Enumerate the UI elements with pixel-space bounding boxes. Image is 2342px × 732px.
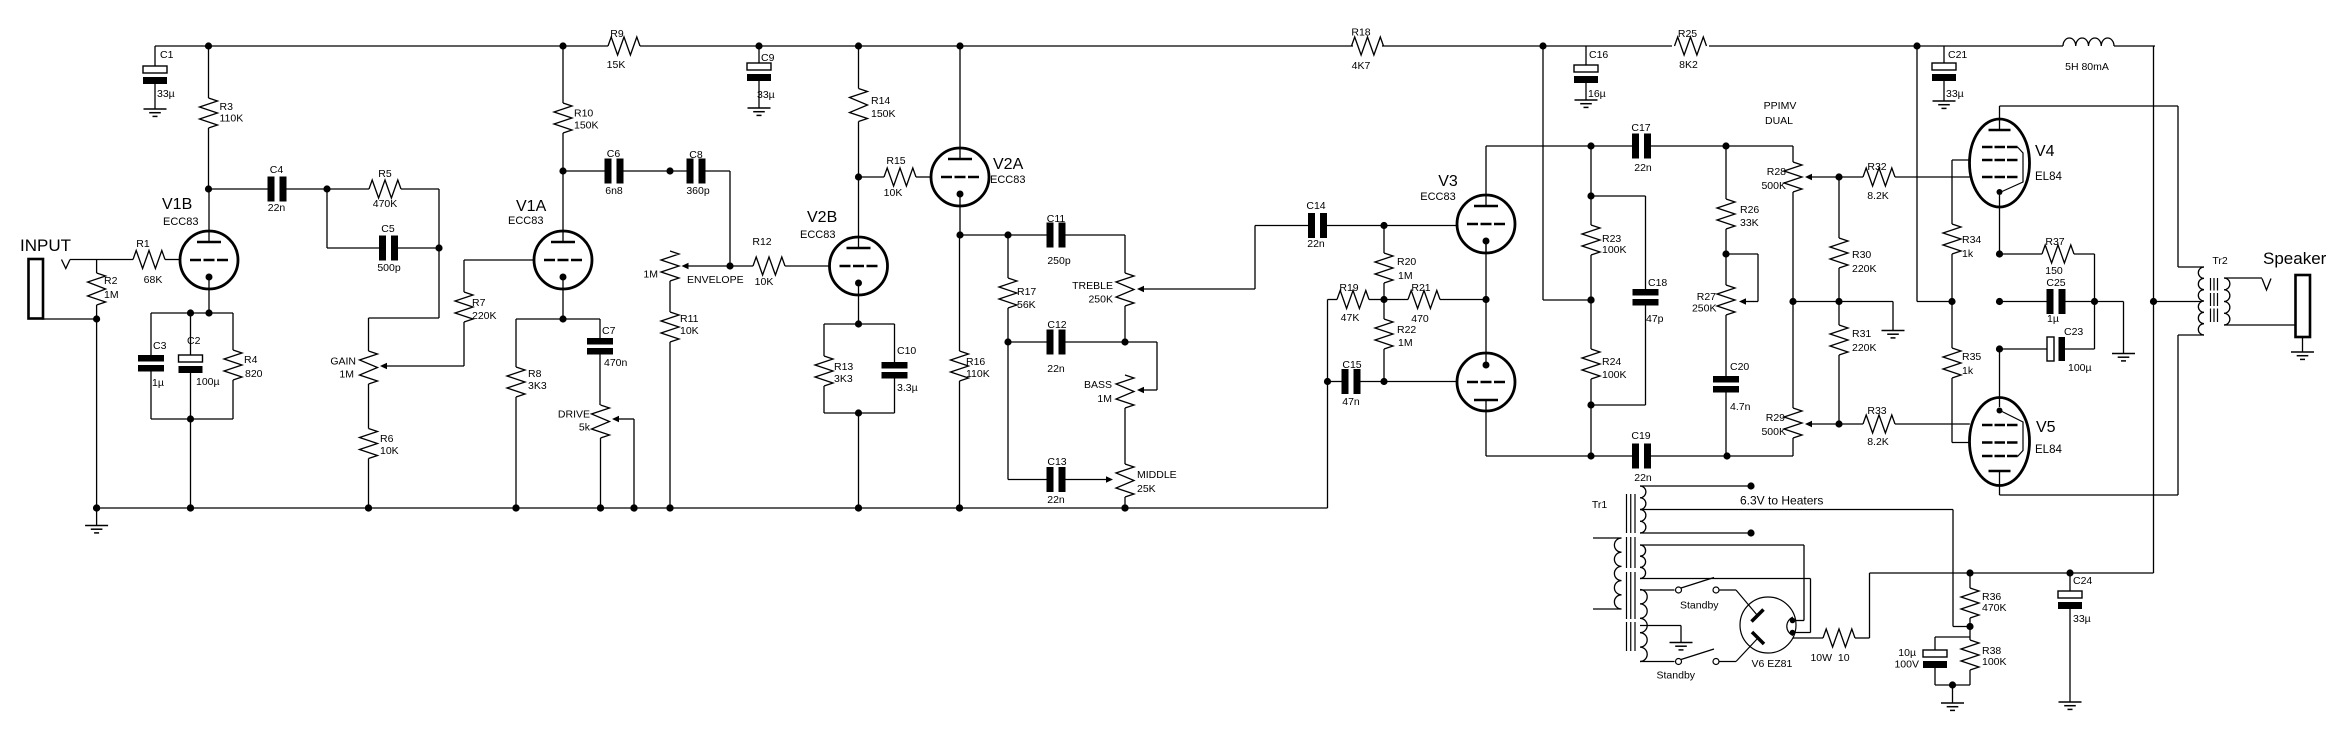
svg-text:V6 EZ81: V6 EZ81 <box>1752 658 1793 670</box>
svg-text:100µ: 100µ <box>196 376 220 388</box>
svg-text:R22: R22 <box>1397 324 1416 336</box>
svg-text:C11: C11 <box>1047 213 1066 225</box>
svg-text:250p: 250p <box>1047 255 1071 267</box>
svg-text:R8: R8 <box>528 368 542 380</box>
svg-text:470K: 470K <box>373 198 398 210</box>
svg-text:R24: R24 <box>1602 356 1621 368</box>
svg-text:100K: 100K <box>1982 656 2007 668</box>
svg-text:BASS: BASS <box>1084 379 1112 391</box>
svg-text:10µ: 10µ <box>1898 647 1916 659</box>
svg-text:1M: 1M <box>1097 393 1112 405</box>
svg-text:V5: V5 <box>2036 419 2056 436</box>
svg-text:ECC83: ECC83 <box>1420 191 1455 203</box>
svg-text:R7: R7 <box>472 297 486 309</box>
svg-text:R28: R28 <box>1767 166 1786 178</box>
svg-text:1k: 1k <box>1962 365 1974 377</box>
svg-text:EL84: EL84 <box>2035 171 2062 183</box>
svg-text:1M: 1M <box>339 369 354 381</box>
svg-text:100K: 100K <box>1602 244 1627 256</box>
svg-text:R14: R14 <box>871 95 890 107</box>
svg-text:150: 150 <box>2045 265 2063 277</box>
svg-text:1M: 1M <box>643 269 658 281</box>
svg-text:1k: 1k <box>1962 248 1974 260</box>
svg-text:R19: R19 <box>1339 282 1358 294</box>
svg-text:R3: R3 <box>220 101 234 113</box>
svg-text:R6: R6 <box>380 433 394 445</box>
svg-text:22n: 22n <box>268 202 286 214</box>
svg-text:47K: 47K <box>1341 312 1360 324</box>
svg-text:Tr2: Tr2 <box>2212 255 2228 267</box>
svg-text:INPUT: INPUT <box>20 236 71 255</box>
svg-text:C18: C18 <box>1648 277 1667 289</box>
svg-text:R20: R20 <box>1397 256 1416 268</box>
svg-text:R18: R18 <box>1351 27 1370 39</box>
svg-text:100µ: 100µ <box>2068 362 2092 374</box>
svg-text:1µ: 1µ <box>2047 313 2059 325</box>
svg-text:R26: R26 <box>1740 204 1759 216</box>
svg-text:C21: C21 <box>1948 49 1967 61</box>
svg-text:56K: 56K <box>1017 299 1036 311</box>
svg-text:DRIVE: DRIVE <box>558 409 590 421</box>
svg-text:500K: 500K <box>1761 426 1786 438</box>
svg-text:R15: R15 <box>886 155 905 167</box>
svg-text:C17: C17 <box>1631 122 1650 134</box>
svg-text:250K: 250K <box>1692 303 1717 315</box>
svg-text:R21: R21 <box>1411 282 1430 294</box>
svg-text:47n: 47n <box>1342 396 1360 408</box>
svg-text:R4: R4 <box>244 354 258 366</box>
svg-text:V4: V4 <box>2035 143 2055 160</box>
svg-text:6n8: 6n8 <box>605 185 623 197</box>
svg-text:820: 820 <box>245 368 263 380</box>
svg-text:R32: R32 <box>1867 161 1886 173</box>
svg-text:C20: C20 <box>1730 361 1749 373</box>
svg-text:R9: R9 <box>610 28 624 40</box>
svg-text:4K7: 4K7 <box>1352 60 1371 72</box>
svg-text:470n: 470n <box>604 357 628 369</box>
svg-text:R16: R16 <box>966 356 985 368</box>
svg-text:10K: 10K <box>680 325 699 337</box>
svg-text:ECC83: ECC83 <box>800 229 835 241</box>
svg-text:6.3V to Heaters: 6.3V to Heaters <box>1740 494 1823 508</box>
svg-text:10W 10: 10W 10 <box>1810 652 1849 664</box>
svg-text:PPIMV: PPIMV <box>1764 100 1797 112</box>
svg-text:10K: 10K <box>884 187 903 199</box>
svg-text:33µ: 33µ <box>2073 613 2091 625</box>
svg-text:3K3: 3K3 <box>834 373 853 385</box>
svg-text:V1A: V1A <box>516 198 547 215</box>
svg-text:150K: 150K <box>574 120 599 132</box>
svg-text:C1: C1 <box>160 49 174 61</box>
svg-text:22n: 22n <box>1047 494 1065 506</box>
svg-text:C12: C12 <box>1047 319 1066 331</box>
svg-text:3K3: 3K3 <box>528 380 547 392</box>
svg-text:R35: R35 <box>1962 351 1981 363</box>
svg-text:360p: 360p <box>686 185 710 197</box>
svg-text:C15: C15 <box>1342 359 1361 371</box>
svg-text:DUAL: DUAL <box>1765 115 1793 127</box>
svg-text:R27: R27 <box>1697 291 1716 303</box>
svg-text:4.7n: 4.7n <box>1730 401 1751 413</box>
svg-text:8.2K: 8.2K <box>1867 436 1889 448</box>
svg-text:220K: 220K <box>472 310 497 322</box>
svg-text:22n: 22n <box>1307 238 1325 250</box>
svg-text:33K: 33K <box>1740 217 1759 229</box>
svg-text:C16: C16 <box>1589 49 1608 61</box>
svg-text:Speaker: Speaker <box>2263 249 2327 268</box>
svg-text:R10: R10 <box>574 108 593 120</box>
svg-text:16µ: 16µ <box>1588 88 1606 100</box>
svg-text:V1B: V1B <box>162 196 192 213</box>
svg-text:C3: C3 <box>153 340 167 352</box>
svg-text:22n: 22n <box>1634 162 1652 174</box>
svg-text:C24: C24 <box>2073 575 2092 587</box>
svg-text:220K: 220K <box>1852 342 1877 354</box>
svg-text:3.3µ: 3.3µ <box>897 382 918 394</box>
svg-text:Standby: Standby <box>1680 600 1719 612</box>
svg-text:25K: 25K <box>1137 483 1156 495</box>
svg-text:V2A: V2A <box>993 156 1024 173</box>
svg-text:EL84: EL84 <box>2035 444 2062 456</box>
svg-text:500K: 500K <box>1761 180 1786 192</box>
svg-text:ENVELOPE: ENVELOPE <box>687 274 744 286</box>
svg-text:GAIN: GAIN <box>330 356 356 368</box>
svg-text:470K: 470K <box>1982 602 2007 614</box>
svg-text:R34: R34 <box>1962 234 1981 246</box>
svg-text:100V: 100V <box>1894 659 1919 671</box>
svg-text:R2: R2 <box>104 275 118 287</box>
svg-text:1M: 1M <box>104 289 119 301</box>
svg-text:C13: C13 <box>1047 456 1066 468</box>
svg-text:C10: C10 <box>897 345 916 357</box>
svg-text:15K: 15K <box>607 59 626 71</box>
svg-text:250K: 250K <box>1088 294 1113 306</box>
svg-text:C19: C19 <box>1631 430 1650 442</box>
svg-text:10K: 10K <box>380 445 399 457</box>
svg-text:C7: C7 <box>602 325 616 337</box>
svg-text:1µ: 1µ <box>152 377 164 389</box>
svg-text:1M: 1M <box>1398 270 1413 282</box>
svg-text:500p: 500p <box>377 262 401 274</box>
svg-text:100K: 100K <box>1602 369 1627 381</box>
svg-text:33µ: 33µ <box>157 88 175 100</box>
svg-text:Tr1: Tr1 <box>1592 499 1608 511</box>
svg-text:ECC83: ECC83 <box>508 215 543 227</box>
svg-text:R33: R33 <box>1867 405 1886 417</box>
svg-text:C8: C8 <box>689 149 703 161</box>
svg-text:1M: 1M <box>1398 337 1413 349</box>
svg-text:R31: R31 <box>1852 328 1871 340</box>
svg-text:22n: 22n <box>1634 472 1652 484</box>
svg-text:C14: C14 <box>1306 200 1325 212</box>
svg-text:R13: R13 <box>834 361 853 373</box>
svg-text:Standby: Standby <box>1657 670 1696 682</box>
svg-text:R11: R11 <box>680 313 699 325</box>
svg-text:C9: C9 <box>761 52 775 64</box>
svg-text:8.2K: 8.2K <box>1867 190 1889 202</box>
svg-text:47p: 47p <box>1646 313 1664 325</box>
svg-text:C6: C6 <box>607 148 621 160</box>
svg-text:R1: R1 <box>136 238 150 250</box>
svg-text:C23: C23 <box>2064 326 2083 338</box>
svg-text:22n: 22n <box>1047 363 1065 375</box>
svg-text:MIDDLE: MIDDLE <box>1137 469 1177 481</box>
svg-text:R29: R29 <box>1766 412 1785 424</box>
svg-text:68K: 68K <box>144 274 163 286</box>
svg-text:ECC83: ECC83 <box>990 174 1025 186</box>
svg-text:110K: 110K <box>220 113 244 125</box>
svg-text:110K: 110K <box>966 368 990 380</box>
svg-text:C25: C25 <box>2046 277 2065 289</box>
svg-text:C2: C2 <box>187 335 201 347</box>
svg-text:ECC83: ECC83 <box>163 216 198 228</box>
svg-text:R5: R5 <box>378 168 392 180</box>
svg-text:10K: 10K <box>755 276 774 288</box>
svg-text:33µ: 33µ <box>1946 88 1964 100</box>
svg-text:33µ: 33µ <box>757 89 775 101</box>
svg-text:8K2: 8K2 <box>1679 59 1698 71</box>
svg-text:R17: R17 <box>1017 286 1036 298</box>
svg-text:5H 80mA: 5H 80mA <box>2065 61 2109 73</box>
svg-text:5k: 5k <box>579 422 591 434</box>
svg-text:C5: C5 <box>381 223 395 235</box>
svg-text:R30: R30 <box>1852 249 1871 261</box>
svg-text:R12: R12 <box>752 236 771 248</box>
svg-text:V2B: V2B <box>807 209 837 226</box>
svg-text:150K: 150K <box>871 108 896 120</box>
svg-text:R37: R37 <box>2045 236 2064 248</box>
svg-text:C4: C4 <box>270 164 284 176</box>
svg-text:TREBLE: TREBLE <box>1072 280 1113 292</box>
svg-text:R25: R25 <box>1678 28 1697 40</box>
svg-text:220K: 220K <box>1852 263 1877 275</box>
svg-text:V3: V3 <box>1438 173 1458 190</box>
